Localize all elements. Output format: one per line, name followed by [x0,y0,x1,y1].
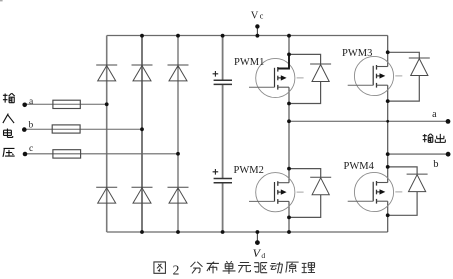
svg-text:b: b [433,159,438,170]
svg-text:PWM4: PWM4 [344,161,375,172]
svg-text:PWM1: PWM1 [234,57,264,68]
svg-text:V: V [251,10,259,21]
svg-text:d: d [261,251,265,260]
svg-text:c: c [260,10,264,20]
svg-text:PWM3: PWM3 [342,48,372,59]
svg-text:c: c [29,144,33,154]
svg-text:2: 2 [173,263,180,278]
svg-text:PWM2: PWM2 [234,165,264,176]
svg-text:a: a [432,109,437,120]
svg-text:a: a [29,97,34,107]
svg-text:V: V [253,246,262,260]
svg-text:b: b [29,120,34,130]
